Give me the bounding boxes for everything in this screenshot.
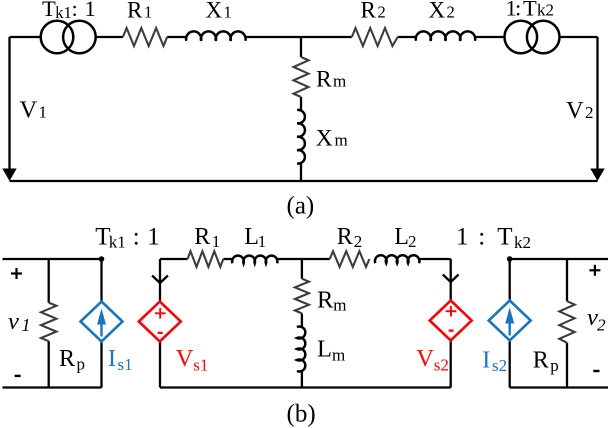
wire Rp1 stub bottom	[48, 341, 50, 387]
wire L1 to R2b through node	[277, 258, 330, 260]
wire X1 to R2 through node	[245, 36, 351, 38]
svg-text:(b): (b)	[287, 401, 316, 428]
label Vs2 (red)	[416, 345, 449, 375]
wire Vs2 column top	[450, 259, 452, 301]
inductor L1	[232, 256, 277, 264]
node dot right (Is2 corner)	[507, 256, 513, 262]
wire L2 to right corner	[419, 258, 451, 260]
resistor Rm (b)	[295, 279, 309, 314]
svg-text:2: 2	[354, 232, 363, 251]
svg-text:R: R	[361, 0, 377, 23]
wire X2 to transformer T2	[475, 36, 505, 38]
svg-text:m: m	[332, 345, 345, 364]
svg-text:1: 1	[144, 3, 152, 22]
svg-text:R: R	[127, 0, 143, 23]
wire R1b to L1	[223, 258, 232, 260]
svg-text:m: m	[335, 130, 348, 149]
wire Rp2 stub bottom	[566, 343, 568, 388]
label L1 (b)	[244, 224, 266, 251]
label X2 (a)	[429, 0, 455, 23]
wire between transformer T1 and resistor R1	[96, 36, 123, 38]
svg-text:I: I	[108, 346, 116, 372]
wire left vertical V1 branch	[8, 37, 10, 169]
svg-text:k2: k2	[537, 1, 554, 20]
wire Rm-b to Lm	[301, 313, 303, 327]
label Rm (b)	[317, 287, 347, 315]
svg-text:p: p	[550, 356, 559, 375]
svg-text:1: 1	[22, 315, 31, 335]
current source Is2 (blue diamond, up arrow)	[489, 301, 531, 341]
inductor X1	[186, 31, 246, 40]
inductor L2	[375, 255, 419, 263]
wire Is2 stub top	[509, 259, 511, 301]
svg-text:2: 2	[447, 3, 455, 22]
svg-text:R: R	[337, 224, 353, 250]
label v1 (italic)	[8, 308, 31, 335]
inductor X2	[416, 31, 475, 40]
label V1	[20, 97, 48, 124]
label Is1 (blue)	[108, 346, 133, 374]
wire bottom rail	[10, 180, 598, 182]
resistor R1 (b)	[188, 251, 224, 267]
svg-text:p: p	[77, 355, 86, 374]
svg-text:V: V	[176, 345, 194, 372]
svg-text:1: 1	[147, 224, 160, 251]
dependent voltage source Vs1 (red diamond)	[139, 302, 181, 342]
wire Rp2 stub top	[566, 259, 568, 301]
wire Vs1 column bottom	[159, 342, 161, 388]
svg-text:(a): (a)	[287, 193, 315, 220]
svg-text:s2: s2	[434, 355, 449, 374]
dependent voltage source Vs2 (red diamond)	[430, 301, 472, 341]
svg-text:R: R	[316, 67, 332, 93]
wire right vertical V2 branch	[596, 37, 598, 169]
chevron arrow on Vs1 column	[152, 276, 168, 284]
svg-text:V: V	[416, 345, 434, 372]
wire Rp1 stub top	[48, 259, 50, 303]
svg-text:v: v	[8, 308, 19, 335]
wire Lm stub bottom	[301, 371, 303, 388]
svg-text:2: 2	[408, 232, 417, 251]
wire right cell bottom rail	[510, 386, 608, 388]
label X1 (a)	[206, 0, 232, 23]
inductor Xm	[297, 110, 305, 164]
svg-text:s1: s1	[118, 355, 133, 374]
svg-text:2: 2	[597, 315, 606, 334]
transformer T1	[41, 21, 96, 54]
arrow V2 (down)	[590, 169, 604, 182]
node dot left (Is1 corner)	[99, 256, 105, 262]
wire Vs1 column top	[159, 259, 161, 302]
wire middle top rail start	[160, 258, 188, 260]
svg-text:1: 1	[39, 103, 48, 122]
label R2 (a)	[361, 0, 386, 23]
wire shunt node to Rm	[300, 37, 302, 57]
svg-text:L: L	[317, 336, 332, 363]
svg-text:1: 1	[85, 0, 96, 21]
svg-text:1: 1	[258, 232, 267, 251]
wire Is1 stub bottom	[100, 342, 102, 388]
wire top rail left segment	[10, 36, 41, 38]
svg-text:R: R	[317, 287, 334, 314]
label Rm (a)	[316, 67, 346, 93]
label + (left cell)	[11, 268, 22, 279]
svg-text:s2: s2	[492, 356, 507, 375]
svg-text:R: R	[59, 346, 75, 372]
resistor Rp (left)	[41, 303, 56, 342]
label 1:Tk2	[506, 0, 555, 21]
label + (right cell)	[589, 265, 600, 276]
wire Rm-b stub top	[301, 259, 303, 279]
label - (right cell)	[593, 370, 599, 372]
wire Is2 stub bottom	[509, 341, 511, 388]
label V2	[566, 97, 594, 124]
svg-text:V: V	[566, 97, 584, 124]
wire Vs2 column bottom	[450, 341, 452, 388]
svg-text:m: m	[333, 72, 346, 91]
svg-text::: :	[515, 0, 521, 21]
svg-text:1: 1	[224, 3, 232, 22]
svg-text:X: X	[316, 126, 333, 152]
svg-text:k1: k1	[109, 232, 126, 251]
svg-text:2: 2	[378, 3, 386, 22]
svg-text:2: 2	[585, 103, 594, 122]
label Tk1:1	[42, 0, 96, 22]
resistor Rp (right)	[559, 301, 574, 343]
svg-text:V: V	[20, 97, 38, 124]
svg-text:R: R	[533, 348, 549, 374]
wire Rm to Xm	[300, 97, 302, 110]
svg-text:k2: k2	[514, 233, 531, 252]
svg-text:X: X	[206, 0, 223, 23]
svg-text:L: L	[244, 224, 259, 250]
label R2 (b)	[337, 224, 363, 251]
svg-text:L: L	[394, 224, 409, 250]
svg-text:R: R	[194, 224, 210, 250]
label - (left cell)	[15, 375, 21, 377]
svg-text:s1: s1	[193, 355, 208, 374]
resistor R1	[123, 28, 167, 46]
wire transformer T2 to right corner	[560, 36, 598, 38]
resistor R2	[352, 28, 398, 46]
svg-text:m: m	[333, 295, 346, 314]
svg-text::: :	[72, 0, 78, 21]
wire middle bottom rail	[160, 386, 451, 388]
wire between R1 and X1	[167, 36, 186, 38]
svg-text:I: I	[482, 347, 490, 373]
current source Is1 (blue diamond, up arrow)	[81, 302, 123, 342]
svg-text:k1: k1	[55, 3, 71, 22]
label Tk1 : 1 (b)	[95, 224, 160, 252]
resistor R2 (b)	[330, 251, 370, 267]
wire right cell top rail	[510, 258, 608, 260]
svg-text::: :	[133, 224, 140, 251]
svg-text:1: 1	[212, 232, 221, 251]
inductor Lm	[297, 327, 305, 372]
label Lm (b)	[317, 336, 345, 365]
label v2 (italic)	[587, 304, 606, 335]
svg-text:T: T	[523, 0, 537, 21]
label R1 (b)	[194, 224, 220, 251]
transformer T2	[505, 21, 560, 54]
svg-text:1: 1	[456, 224, 469, 251]
chevron arrow on Vs2 column	[443, 275, 459, 283]
wire left cell top rail	[3, 258, 102, 260]
label Rp (left)	[59, 346, 85, 374]
label Rp (right)	[533, 348, 559, 376]
label Is2 (blue)	[482, 347, 507, 375]
svg-text:T: T	[42, 0, 56, 21]
svg-text:X: X	[429, 0, 446, 23]
label L2 (b)	[394, 224, 416, 251]
resistor Rm	[294, 57, 309, 97]
svg-text:T: T	[497, 224, 512, 251]
label Vs1 (red)	[176, 345, 209, 375]
label Xm (a)	[316, 126, 348, 152]
wire R2 to X2	[398, 36, 416, 38]
wire Is1 stub top	[100, 259, 102, 302]
label 1 : Tk2 (b)	[456, 224, 531, 252]
label R1 (a)	[127, 0, 152, 23]
wire Xm to bottom rail	[300, 164, 302, 182]
wire left cell bottom rail	[3, 386, 102, 388]
arrow V1 (down)	[2, 169, 16, 182]
svg-text::: :	[478, 224, 485, 251]
